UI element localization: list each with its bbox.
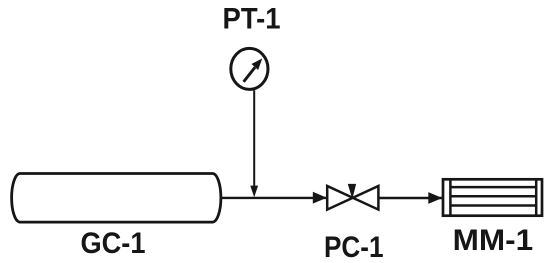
flow meter right cap line <box>535 179 538 215</box>
flow meter left cap line <box>449 179 452 215</box>
valve actuator wedge <box>348 184 355 197</box>
flow meter MM-1 body <box>443 179 542 215</box>
pressure gauge PT-1 <box>231 48 268 89</box>
arrowhead down at junction <box>250 186 258 198</box>
svg-text:PC-1: PC-1 <box>324 231 384 263</box>
wire: pipe from cylinder to valve <box>221 197 327 199</box>
svg-text:GC-1: GC-1 <box>81 227 146 260</box>
flow meter plate line 3 <box>450 204 536 207</box>
gauge needle <box>244 58 263 81</box>
valve PC-1 body <box>327 186 378 210</box>
svg-text:MM-1: MM-1 <box>453 224 534 257</box>
arrowhead into valve <box>313 192 327 204</box>
flow meter plate line 2 <box>450 195 536 198</box>
flow meter plate line 1 <box>450 186 536 189</box>
arrowhead into flow meter <box>428 192 442 204</box>
wire: vertical line from gauge to pipe <box>253 90 255 190</box>
svg-text:PT-1: PT-1 <box>223 2 281 35</box>
wire: pipe from valve to flow meter <box>378 197 442 199</box>
gas cylinder GC-1 <box>12 174 221 223</box>
